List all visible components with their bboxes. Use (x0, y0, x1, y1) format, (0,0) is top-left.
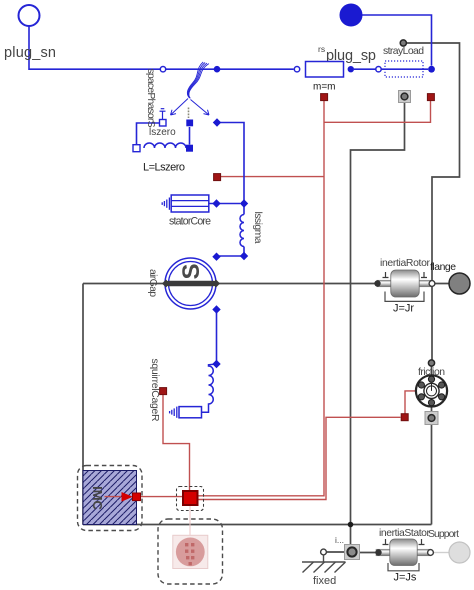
svg-text:J=Jr: J=Jr (393, 303, 414, 315)
svg-text:Support: Support (428, 529, 459, 540)
svg-text:m=m: m=m (313, 82, 336, 93)
svg-text:S: S (178, 263, 205, 279)
svg-text:IMC: IMC (90, 486, 105, 510)
svg-text:rs: rs (318, 44, 325, 54)
svg-text:plug_sn: plug_sn (4, 45, 56, 61)
svg-text:squirrelCageR: squirrelCageR (149, 359, 160, 422)
svg-text:lszero: lszero (149, 127, 176, 138)
svg-text:lssigma: lssigma (252, 212, 263, 244)
svg-text:i...: i... (335, 535, 344, 545)
svg-text:airGap: airGap (147, 269, 158, 297)
svg-text:inertiaRotor: inertiaRotor (380, 258, 431, 269)
svg-text:L=Lszero: L=Lszero (143, 162, 185, 174)
svg-text:statorCore: statorCore (169, 216, 211, 228)
svg-text:inertiaStator: inertiaStator (379, 528, 431, 539)
svg-text:J=Js: J=Js (394, 572, 417, 584)
svg-text:strayLoad: strayLoad (383, 46, 424, 57)
svg-text:fixed: fixed (313, 575, 336, 587)
svg-text:flange: flange (430, 262, 456, 273)
svg-text:spacePhasorS: spacePhasorS (145, 69, 156, 128)
